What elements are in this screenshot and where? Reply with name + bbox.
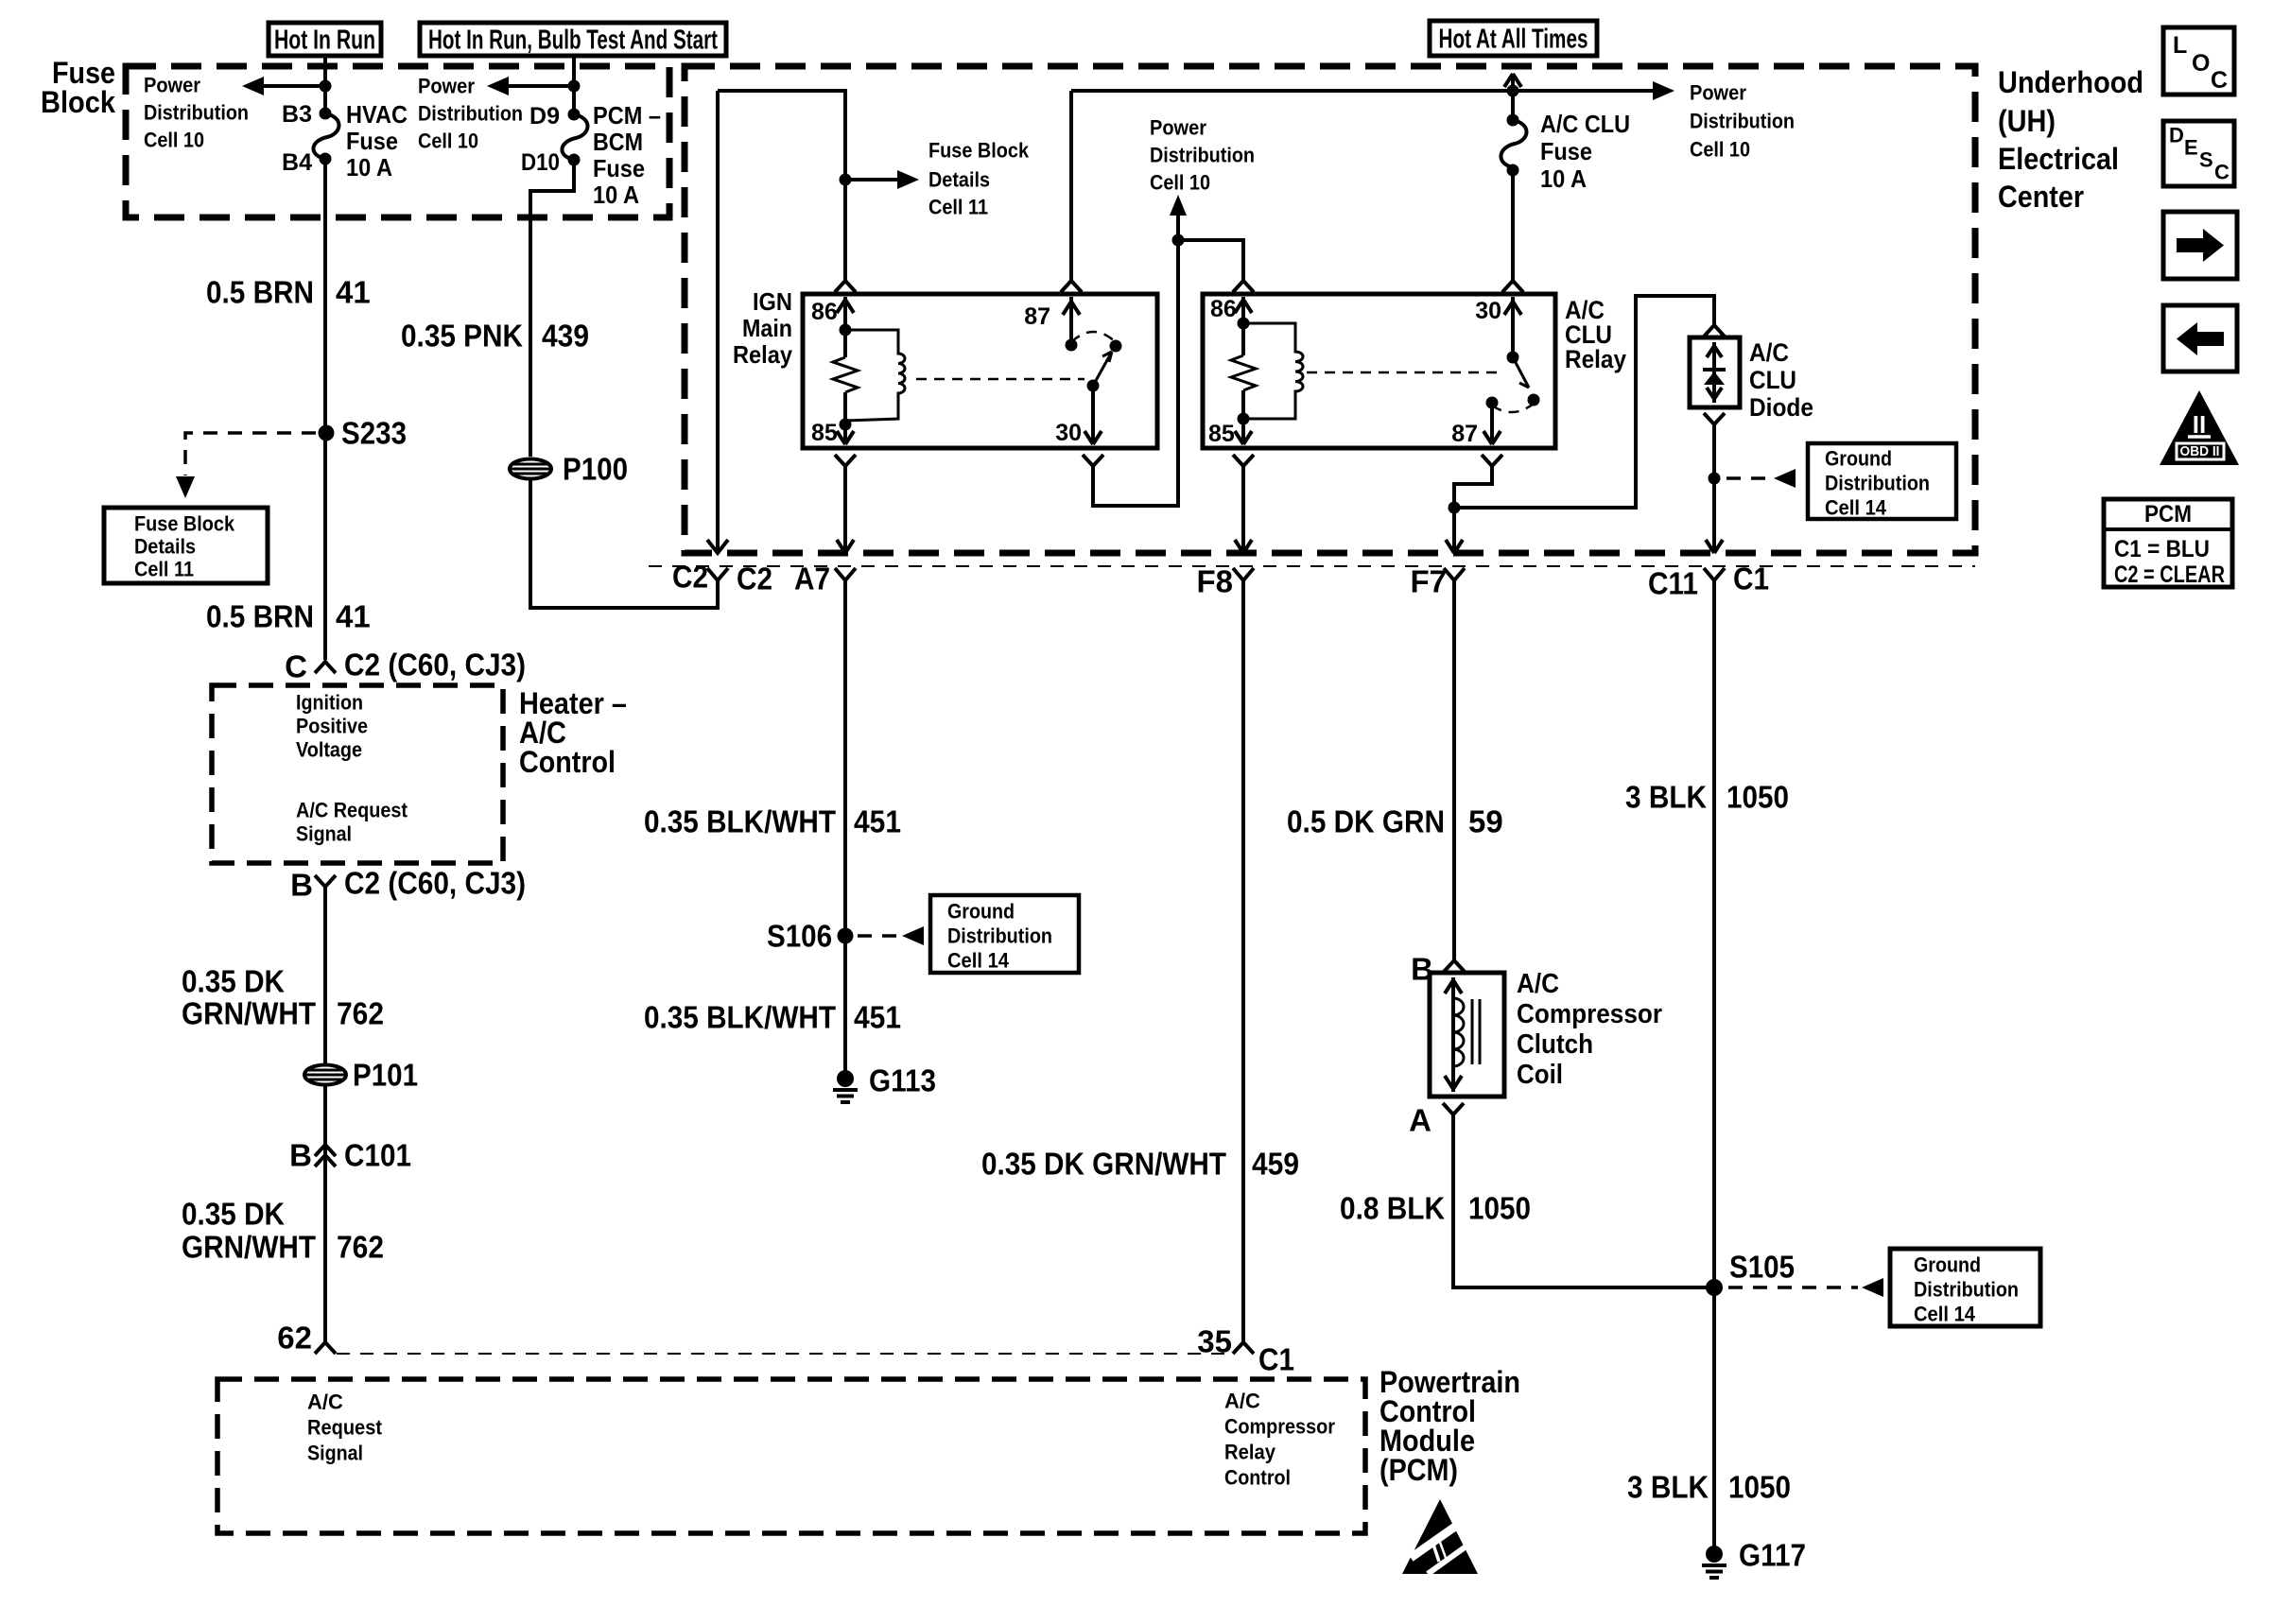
svg-text:C: C: [285, 649, 307, 684]
node S233 splice: [319, 425, 335, 441]
wire from Hot At All Times down to junction: [1504, 74, 1521, 114]
svg-text:S106: S106: [767, 919, 832, 954]
svg-text:Underhood: Underhood: [1998, 65, 2143, 99]
arrows exiting UH box bottom: [837, 540, 854, 553]
svg-text:439: 439: [542, 319, 589, 354]
node junction at A/C CLU fuse: [1507, 85, 1519, 97]
svg-text:Distribution: Distribution: [1690, 110, 1795, 133]
node: connector B of C2 (C60, CJ3): [315, 875, 336, 892]
node: Ground Distribution Cell 14 reference box (S106): [930, 895, 1079, 973]
diode chevron bottom: [1704, 413, 1725, 424]
svg-text:Fuse: Fuse: [346, 127, 398, 155]
svg-text:35: 35: [1197, 1324, 1232, 1359]
relay2 switch blade: [1513, 357, 1529, 388]
relay2 coil circuit pin 86 to 85: [1241, 297, 1245, 355]
node junction on PCM-BCM feed: [568, 80, 581, 93]
svg-text:A/C: A/C: [1749, 338, 1789, 367]
clutch coil windings: [1453, 998, 1464, 1066]
svg-text:C1: C1: [1258, 1342, 1294, 1377]
svg-text:3 BLK: 3 BLK: [1627, 1470, 1709, 1505]
svg-text:PCM: PCM: [2144, 501, 2192, 527]
svg-text:A/C Request: A/C Request: [296, 799, 408, 822]
node: connector B of clutch coil: [1444, 960, 1465, 972]
svg-text:Signal: Signal: [307, 1442, 363, 1465]
wire: power distribution tap arrow (left): [261, 84, 325, 88]
node: Ground Distribution Cell 14 reference box (upper): [1808, 443, 1956, 519]
relay2 pin 87 arrow and chevron: [1486, 397, 1499, 409]
svg-text:II: II: [2193, 410, 2206, 439]
svg-text:Cell 10: Cell 10: [1150, 171, 1210, 195]
node: Underhood Electrical Center dashed box: [685, 66, 1975, 553]
fuse PCM-BCM Fuse 10 A: [562, 114, 587, 160]
wire from D9 feed (Hot In Run Bulb Test): [572, 56, 576, 110]
node: connector B C101 (double chevron): [315, 1145, 336, 1166]
node: pin 35 connector C1 at PCM: [1233, 1342, 1254, 1354]
svg-text:Ground: Ground: [947, 900, 1015, 924]
wire 0.5 DK GRN 59 from F7 to clutch coil B: [1452, 580, 1456, 961]
node junction on circuit feed at fuse block: [320, 80, 332, 93]
svg-text:D10: D10: [521, 149, 560, 176]
relay2 pin 30 chevron and contact: [1502, 281, 1523, 292]
svg-text:Ground: Ground: [1914, 1253, 1981, 1277]
wire branch from 87 junction to A/C CLU diode: [1454, 296, 1714, 508]
node D10 terminal: [568, 154, 581, 166]
svg-text:Compressor: Compressor: [1224, 1415, 1335, 1439]
svg-text:GRN/WHT: GRN/WHT: [182, 1230, 316, 1265]
wire 0.5 BRN 41 from S233 to connector C: [323, 439, 327, 660]
svg-text:Distribution: Distribution: [144, 101, 249, 125]
svg-text:85: 85: [811, 420, 838, 446]
node: ESD sensitive symbol: [1402, 1499, 1478, 1574]
svg-text:Distribution: Distribution: [418, 102, 523, 126]
svg-text:Ignition: Ignition: [296, 691, 363, 715]
relay pin 87 chevron and contact: [1061, 281, 1082, 292]
svg-text:P100: P100: [563, 452, 628, 487]
svg-text:A/C: A/C: [1517, 969, 1559, 999]
svg-text:Ground: Ground: [1825, 447, 1892, 471]
svg-text:Positive: Positive: [296, 715, 368, 738]
svg-text:Cell 11: Cell 11: [928, 196, 988, 219]
wire from Hot In Run into fuse block (circuit 41 feed): [323, 56, 327, 110]
svg-text:1050: 1050: [1726, 780, 1789, 815]
ground G113: [837, 1070, 854, 1087]
svg-text:87: 87: [1024, 303, 1050, 330]
svg-text:Main: Main: [742, 314, 792, 342]
svg-text:Distribution: Distribution: [947, 924, 1052, 948]
relay2 pin 85 arrow and chevron: [1235, 419, 1252, 444]
svg-text:S233: S233: [341, 416, 407, 451]
svg-text:3 BLK: 3 BLK: [1625, 780, 1707, 815]
svg-text:Diode: Diode: [1749, 393, 1813, 422]
diode: A/C CLU Diode chevron top: [1704, 325, 1725, 337]
svg-text:CLU: CLU: [1749, 366, 1796, 394]
svg-text:Block: Block: [41, 85, 115, 119]
svg-text:Relay: Relay: [1224, 1441, 1276, 1464]
svg-text:Clutch: Clutch: [1517, 1029, 1593, 1060]
svg-text:Distribution: Distribution: [1150, 144, 1255, 167]
svg-text:BCM: BCM: [593, 128, 643, 156]
svg-text:Fuse Block: Fuse Block: [928, 139, 1030, 163]
wire 0.8 BLK 1050 from clutch coil A to S105: [1453, 1114, 1708, 1287]
svg-text:41: 41: [336, 275, 371, 310]
svg-text:L: L: [2173, 32, 2187, 59]
svg-text:Center: Center: [1998, 180, 2084, 214]
fuse A/C CLU Fuse 10 A: [1507, 114, 1519, 127]
svg-text:B3: B3: [282, 101, 312, 128]
wire 0.35 BLK/WHT 451 from S106 to G113: [843, 936, 847, 1079]
svg-text:0.5 BRN: 0.5 BRN: [206, 599, 314, 634]
svg-text:Power: Power: [144, 74, 200, 97]
relay: A/C CLU Relay box: [1203, 294, 1555, 448]
svg-text:0.8 BLK: 0.8 BLK: [1340, 1191, 1445, 1226]
svg-text:Fuse: Fuse: [593, 154, 645, 182]
svg-text:30: 30: [1475, 298, 1501, 324]
svg-text:Control: Control: [1224, 1466, 1291, 1490]
svg-text:S: S: [2199, 148, 2213, 172]
svg-text:Cell 10: Cell 10: [144, 129, 204, 152]
resistor inside IGN main relay: [833, 357, 858, 392]
wire 0.35 DK GRN/WHT 459 from F8 to PCM pin 35: [1241, 580, 1245, 1342]
node B3 terminal: [320, 108, 332, 120]
svg-text:Cell 14: Cell 14: [1825, 496, 1887, 520]
wire PNK from P100 down and right to C2 connector: [530, 479, 718, 608]
svg-text:0.35 DK: 0.35 DK: [182, 964, 285, 999]
wire: dashed reference from S106 to ground distribution: [858, 934, 898, 938]
relay normally-open contact dot: [1110, 340, 1122, 353]
wire from P101 to C101: [323, 1085, 327, 1166]
svg-text:Hot At All Times: Hot At All Times: [1439, 25, 1588, 55]
svg-text:B: B: [289, 1138, 312, 1173]
svg-text:762: 762: [337, 1230, 384, 1265]
svg-text:Cell 11: Cell 11: [134, 558, 194, 581]
svg-text:E: E: [2184, 136, 2198, 160]
svg-text:30: 30: [1055, 420, 1082, 446]
svg-text:C2 (C60, CJ3): C2 (C60, CJ3): [344, 866, 526, 901]
svg-text:IGN: IGN: [753, 287, 792, 316]
relay2 pin 86 chevron: [1233, 281, 1254, 292]
svg-text:HVAC: HVAC: [346, 100, 408, 129]
svg-text:P101: P101: [353, 1058, 418, 1093]
svg-text:Hot In Run, Bulb Test And Star: Hot In Run, Bulb Test And Start: [428, 26, 718, 56]
svg-text:Power: Power: [418, 75, 475, 98]
svg-text:Hot In Run: Hot In Run: [274, 26, 375, 56]
svg-text:B: B: [290, 868, 313, 903]
svg-text:86: 86: [1210, 296, 1237, 322]
node: Ground Distribution Cell 14 reference box (S105): [1890, 1249, 2040, 1326]
node S106 splice: [838, 928, 854, 944]
connector F7 at UH bottom: [1444, 568, 1465, 580]
svg-text:Compressor: Compressor: [1517, 999, 1662, 1029]
svg-text:451: 451: [854, 1000, 901, 1035]
wire 0.35 DK GRN/WHT 762 from B to P101: [323, 892, 327, 1065]
wire 0.35 BLK/WHT 451 from A7 to S106: [843, 580, 847, 936]
svg-text:0.5 DK GRN: 0.5 DK GRN: [1287, 804, 1445, 839]
icon: LOC box: [2163, 27, 2234, 95]
svg-text:0.35 DK: 0.35 DK: [182, 1197, 285, 1232]
fuse block dashed outline: [126, 66, 669, 217]
connector A7 at UH bottom: [835, 568, 856, 580]
ground G117: [1706, 1546, 1723, 1563]
icon: OBD II triangle: [2160, 390, 2239, 465]
connector F8 at UH bottom: [1233, 568, 1254, 580]
coil inside A/C CLU relay: [1243, 323, 1303, 419]
svg-text:762: 762: [337, 996, 384, 1031]
svg-text:1050: 1050: [1468, 1191, 1531, 1226]
svg-text:Control: Control: [519, 745, 616, 779]
wire: power distribution tap arrow (left) second: [506, 84, 574, 88]
svg-text:10 A: 10 A: [1540, 164, 1587, 193]
svg-text:(PCM): (PCM): [1379, 1453, 1458, 1487]
node: Hot At All Times feed label box: [1430, 21, 1597, 56]
node junction on diode ground wire: [1709, 473, 1721, 485]
wire 3 BLK 1050 from C11 to S105: [1712, 580, 1716, 1287]
svg-text:C101: C101: [344, 1138, 411, 1173]
wire from IGN relay 87 to A/C CLU fuse junction: [1071, 91, 1513, 284]
node S105 splice: [1706, 1279, 1723, 1296]
fuse HVAC Fuse 10 A: [313, 113, 338, 159]
wire 0.5 BRN 41 from B4 down to S233: [323, 159, 327, 427]
relay coil circuit pin 86 to 85: [843, 297, 847, 357]
icon: DESC box: [2163, 121, 2234, 186]
svg-text:S105: S105: [1729, 1250, 1795, 1285]
svg-text:0.5 BRN: 0.5 BRN: [206, 275, 314, 310]
svg-text:0.35 DK GRN/WHT: 0.35 DK GRN/WHT: [981, 1147, 1226, 1182]
connector C11 C1 at UH bottom: [1704, 568, 1725, 580]
svg-text:Cell 14: Cell 14: [947, 949, 1010, 973]
svg-text:Relay: Relay: [733, 340, 792, 369]
svg-text:C2 (C60, CJ3): C2 (C60, CJ3): [344, 648, 526, 682]
svg-text:B4: B4: [282, 149, 312, 176]
svg-text:A/C: A/C: [1224, 1390, 1260, 1413]
relay pin 85 arrow and chevron: [837, 424, 854, 444]
node junction on F7 wire: [1449, 502, 1461, 514]
wire branch to A/C CLU relay coil 86: [1178, 240, 1243, 284]
svg-text:F7: F7: [1410, 564, 1447, 599]
svg-text:0.35 BLK/WHT: 0.35 BLK/WHT: [644, 804, 836, 839]
svg-text:C: C: [2211, 67, 2228, 94]
svg-text:Cell 10: Cell 10: [1690, 138, 1750, 162]
wire from fuse to A/C CLU relay pin 30: [1511, 170, 1515, 284]
svg-text:Request: Request: [307, 1416, 383, 1440]
node B4 terminal: [320, 153, 332, 165]
component: A/C Compressor Clutch Coil box: [1430, 973, 1504, 1097]
svg-text:Power: Power: [1690, 81, 1746, 105]
svg-text:Power: Power: [1150, 116, 1206, 140]
node: pin 62 connector at PCM: [315, 1342, 336, 1354]
svg-text:86: 86: [811, 299, 838, 325]
node: Heater A/C Control dashed box: [212, 685, 503, 863]
svg-text:Distribution: Distribution: [1914, 1278, 2019, 1302]
svg-text:O: O: [2192, 50, 2210, 77]
icon: left arrow box: [2163, 305, 2237, 371]
svg-text:Cell 14: Cell 14: [1914, 1303, 1976, 1326]
node: connector C of C2 (C60, CJ3): [315, 662, 336, 673]
svg-text:451: 451: [854, 804, 901, 839]
dashed actuator line from coil to switch (relay2): [1307, 371, 1501, 374]
svg-text:Electrical: Electrical: [1998, 142, 2119, 176]
wire: thin dashed connector line from 62 to 35: [337, 1353, 1231, 1355]
svg-text:G113: G113: [869, 1063, 936, 1098]
svg-text:C2 = CLEAR: C2 = CLEAR: [2114, 561, 2225, 588]
svg-text:Fuse Block: Fuse Block: [134, 512, 235, 536]
svg-text:87: 87: [1451, 421, 1478, 447]
icon: right arrow box: [2163, 212, 2237, 279]
svg-text:GRN/WHT: GRN/WHT: [182, 996, 316, 1031]
svg-text:Coil: Coil: [1517, 1060, 1563, 1090]
wire: dashed reference from S233 to Fuse Block Details: [185, 433, 316, 475]
node junction on power distribution riser: [1172, 234, 1185, 247]
node P100 grommet: [510, 459, 551, 479]
svg-text:C1 = BLU: C1 = BLU: [2114, 536, 2210, 562]
node D9 terminal: [568, 109, 581, 121]
svg-text:C: C: [2214, 161, 2230, 184]
svg-text:Details: Details: [928, 168, 990, 192]
svg-text:A/C CLU: A/C CLU: [1540, 110, 1630, 138]
svg-text:D: D: [2169, 124, 2184, 147]
wire: dashed reference from S105 to ground distribution: [1728, 1286, 1858, 1289]
svg-text:10 A: 10 A: [593, 181, 639, 209]
resistor inside A/C CLU relay: [1231, 355, 1256, 390]
node: connector C2 / C2 at underhood electrical center: [707, 568, 728, 580]
svg-text:A: A: [1409, 1103, 1431, 1138]
svg-text:(UH): (UH): [1998, 104, 2056, 138]
svg-text:59: 59: [1468, 804, 1503, 839]
svg-text:Cell 10: Cell 10: [418, 130, 478, 153]
svg-text:41: 41: [336, 599, 371, 634]
svg-text:Distribution: Distribution: [1825, 472, 1930, 495]
svg-text:D9: D9: [529, 103, 560, 130]
wire PNK 439 jog from D10 down-left: [530, 160, 574, 457]
svg-text:PCM –: PCM –: [593, 101, 661, 130]
node P101 grommet: [304, 1065, 346, 1085]
node: Fuse Block Details Cell 11 reference box: [104, 508, 268, 583]
svg-text:Relay: Relay: [1565, 345, 1626, 373]
svg-text:C11: C11: [1648, 566, 1698, 601]
node: Hot In Run Bulb Test And Start feed label box: [420, 23, 726, 56]
node junction: fuse block details tap on relay 86 wire: [840, 174, 852, 186]
svg-text:0.35 PNK: 0.35 PNK: [401, 319, 523, 354]
relay switch blade: [1093, 352, 1112, 386]
diode: A/C CLU Diode box: [1690, 337, 1740, 407]
svg-text:Voltage: Voltage: [296, 738, 362, 762]
svg-text:C2: C2: [672, 560, 708, 595]
svg-text:Signal: Signal: [296, 822, 352, 846]
svg-text:85: 85: [1208, 421, 1235, 447]
svg-text:459: 459: [1252, 1147, 1299, 1182]
svg-text:Fuse: Fuse: [1540, 137, 1592, 165]
svg-text:10 A: 10 A: [346, 153, 392, 181]
node: Hot In Run feed label box: [269, 23, 381, 56]
wire 0.35 DK GRN/WHT 762 from C101 to pin 62: [323, 1166, 327, 1342]
svg-text:C1: C1: [1733, 561, 1769, 596]
node: Powertrain Control Module dashed box: [217, 1379, 1365, 1533]
relay pin 86 chevron: [835, 281, 856, 292]
wire 3 BLK 1050 from S105 to G117: [1712, 1287, 1716, 1550]
svg-text:0.35 BLK/WHT: 0.35 BLK/WHT: [644, 1000, 836, 1035]
svg-text:62: 62: [277, 1321, 312, 1356]
svg-text:1050: 1050: [1728, 1470, 1791, 1505]
wire: dashed reference from diode wire to ground distribution: [1726, 476, 1770, 480]
relay2 normally-open contact dot: [1528, 394, 1540, 406]
coil inside IGN main relay: [845, 330, 905, 421]
dashed actuator line from coil to switch: [916, 378, 1084, 381]
node: PCM connector legend box: [2104, 499, 2232, 587]
node: connector A of clutch coil: [1443, 1103, 1464, 1114]
wire PNK riser inside UH box to IGN main relay coil: [716, 91, 720, 549]
wire from diode to C11 connector: [1712, 424, 1716, 541]
svg-text:A/C: A/C: [307, 1391, 343, 1414]
svg-text:Details: Details: [134, 535, 196, 559]
wire: thin dashed connector row line: [649, 565, 1975, 567]
svg-text:G117: G117: [1739, 1538, 1806, 1573]
relay: IGN Main Relay box: [803, 294, 1157, 448]
svg-text:OBD II: OBD II: [2180, 444, 2220, 459]
wire: power distribution tap arrow (right): [1513, 89, 1654, 93]
svg-text:F8: F8: [1196, 564, 1233, 599]
